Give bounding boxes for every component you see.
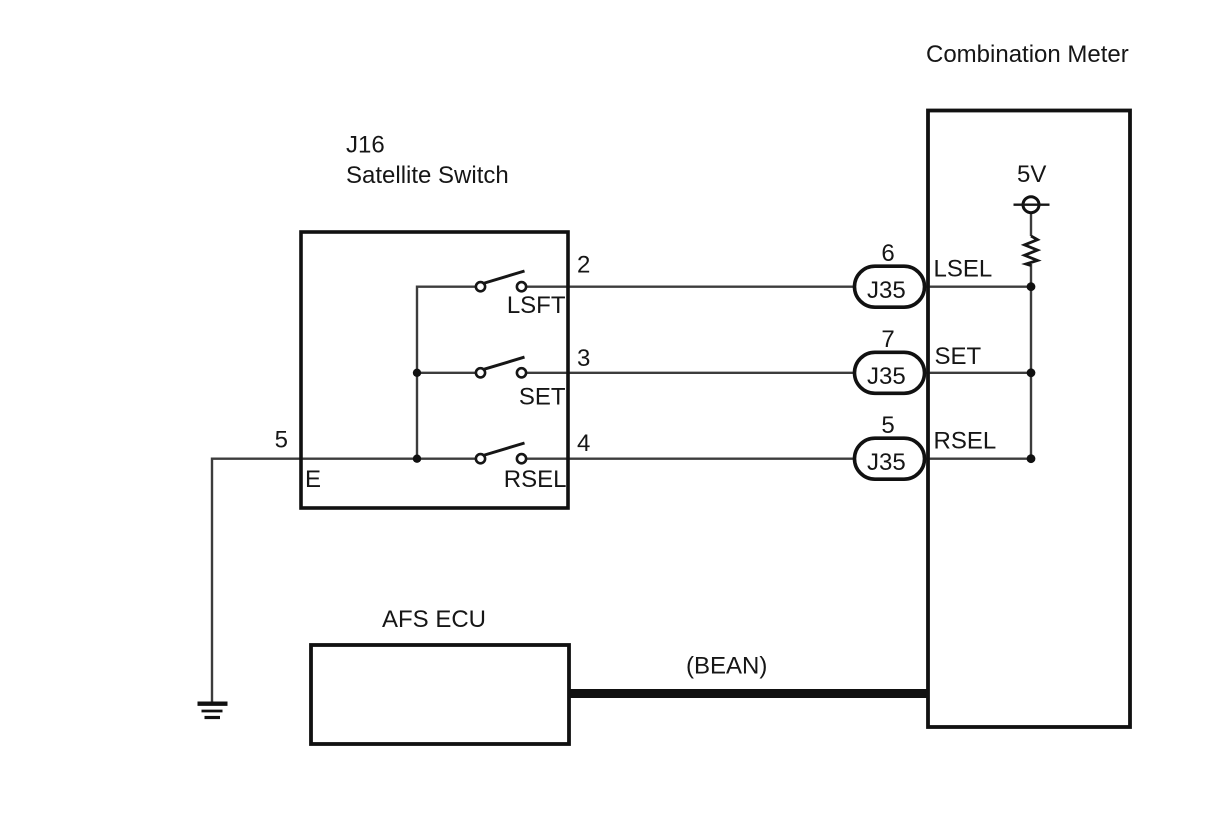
svg-text:LSFT: LSFT <box>507 292 566 319</box>
wire ground drop from pin5 <box>211 458 213 702</box>
switch SET contacts <box>476 368 485 377</box>
svg-text:4: 4 <box>577 430 590 457</box>
connector J35 pin7 <box>855 352 925 393</box>
wire pin3 SET to J35 to node SET <box>417 372 476 374</box>
svg-text:Combination Meter: Combination Meter <box>926 41 1129 68</box>
junction bus-RSEL <box>413 455 421 463</box>
BEAN bus thick line <box>569 689 928 698</box>
combination meter box <box>928 111 1130 728</box>
svg-text:AFS ECU: AFS ECU <box>382 606 486 633</box>
junction node SET <box>1027 368 1036 377</box>
svg-text:E: E <box>305 466 321 493</box>
svg-text:J35: J35 <box>867 449 906 476</box>
resistor pull-up <box>1025 236 1038 266</box>
svg-text:6: 6 <box>881 240 894 267</box>
svg-text:7: 7 <box>881 326 894 353</box>
svg-text:SET: SET <box>519 384 566 411</box>
svg-text:2: 2 <box>577 252 590 279</box>
wire switch common bus <box>416 286 418 459</box>
wire pin2 LSFT to J35 to node LSEL <box>417 286 476 288</box>
svg-text:J35: J35 <box>867 363 906 390</box>
svg-text:RSEL: RSEL <box>934 428 997 455</box>
junction node LSEL <box>1027 282 1036 291</box>
switch SET arm <box>483 357 525 370</box>
switch LSFT arm <box>483 271 525 284</box>
svg-text:5: 5 <box>881 412 894 439</box>
connector J35 pin6 <box>855 266 925 307</box>
svg-text:J16: J16 <box>346 132 385 159</box>
svg-text:Satellite Switch: Satellite Switch <box>346 162 509 189</box>
svg-text:5V: 5V <box>1017 161 1046 188</box>
junction node RSEL <box>1027 454 1036 463</box>
AFS ECU box <box>311 645 569 744</box>
switch LSFT contacts <box>476 282 485 291</box>
svg-text:3: 3 <box>577 345 590 372</box>
svg-text:RSEL: RSEL <box>504 466 567 493</box>
5V supply terminal <box>1023 197 1039 213</box>
switch box J16 Satellite Switch <box>301 232 568 508</box>
svg-text:(BEAN): (BEAN) <box>686 653 767 680</box>
wire pin4 RSEL to J35 to node RSEL <box>212 458 476 460</box>
svg-text:SET: SET <box>935 343 982 370</box>
svg-text:5: 5 <box>275 427 288 454</box>
svg-text:J35: J35 <box>867 277 906 304</box>
ground <box>198 702 228 706</box>
svg-text:LSEL: LSEL <box>934 256 993 283</box>
switch RSEL arm <box>483 443 525 456</box>
wire 5V pull-up bus <box>1030 213 1032 236</box>
switch RSEL contacts <box>476 454 485 463</box>
connector J35 pin5 <box>855 438 925 479</box>
junction bus-SET <box>413 369 421 377</box>
